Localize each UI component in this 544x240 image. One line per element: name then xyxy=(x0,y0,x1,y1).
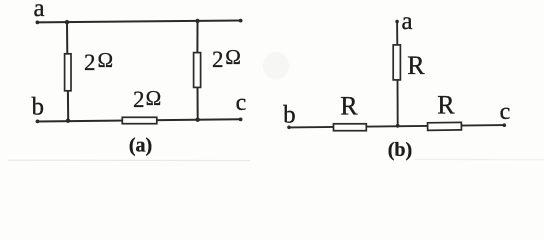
wire left branch upper xyxy=(66,22,68,55)
junction top-right xyxy=(195,19,199,23)
wire vertical upper (a to resistor) xyxy=(396,22,398,46)
scan artifact streak bottom xyxy=(8,159,250,161)
svg-text:(a): (a) xyxy=(129,135,152,157)
top-right end dot xyxy=(239,19,243,23)
junction bottom-left xyxy=(66,119,70,123)
wire bottom (b to c) xyxy=(37,119,241,121)
svg-text:(b): (b) xyxy=(388,139,412,161)
node a terminal dot (b fig) xyxy=(395,20,399,24)
svg-text:Ω: Ω xyxy=(146,86,162,110)
wire vertical lower (resistor to junction) xyxy=(397,80,399,126)
resistor R vertical xyxy=(393,45,400,80)
node c terminal dot xyxy=(239,118,243,122)
value label 2ohm left xyxy=(84,48,113,75)
svg-text:2: 2 xyxy=(84,50,96,75)
figure (a) xyxy=(37,21,241,122)
svg-text:R: R xyxy=(340,91,358,120)
junction bottom-right xyxy=(196,118,200,122)
resistor 2ohm right vertical xyxy=(194,53,201,88)
wire left branch lower xyxy=(67,91,69,122)
resistor R left horizontal xyxy=(334,124,367,131)
node b terminal dot xyxy=(36,120,40,124)
wire right branch lower xyxy=(197,87,199,120)
svg-text:b: b xyxy=(283,102,296,129)
wire bottom (b to c) xyxy=(289,125,505,127)
resistor 2ohm left vertical xyxy=(65,54,71,91)
wire right branch upper xyxy=(196,21,198,54)
scan artifact smudge between figures xyxy=(263,52,289,80)
node a terminal dot xyxy=(36,21,40,25)
svg-text:2: 2 xyxy=(212,47,224,72)
svg-text:a: a xyxy=(401,8,412,35)
wire top (a to top-right) xyxy=(37,21,241,23)
node b terminal dot (b fig) xyxy=(287,126,291,130)
svg-text:c: c xyxy=(500,99,511,125)
resistor 2ohm bottom horizontal xyxy=(122,117,157,123)
junction top-left xyxy=(65,20,69,24)
figure (b) xyxy=(289,22,505,128)
svg-text:R: R xyxy=(437,90,455,119)
centre junction dot xyxy=(396,124,400,128)
svg-text:Ω: Ω xyxy=(98,48,114,72)
svg-text:Ω: Ω xyxy=(225,45,241,69)
value label 2ohm right xyxy=(212,45,241,72)
value label 2ohm bottom xyxy=(133,86,161,112)
svg-text:b: b xyxy=(32,93,45,120)
svg-text:R: R xyxy=(407,51,425,80)
svg-text:2: 2 xyxy=(133,87,145,112)
node c terminal dot (b fig) xyxy=(503,123,507,127)
svg-text:a: a xyxy=(33,0,44,22)
svg-text:c: c xyxy=(236,90,247,116)
resistor R right horizontal xyxy=(428,122,462,130)
